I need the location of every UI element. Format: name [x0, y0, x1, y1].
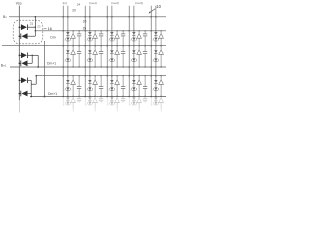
capacitor C2d: [99, 96, 103, 103]
transistor Q1b: [70, 45, 75, 68]
svg-text:24: 24: [77, 3, 81, 7]
wire column line A5: [150, 6, 152, 106]
svg-text:26: 26: [83, 20, 87, 24]
wire column line B1: [67, 6, 69, 105]
node column label (m): [63, 1, 67, 5]
transistor Q3b: [114, 45, 119, 68]
VDD supply rail wire: [18, 6, 20, 113]
wire column line A3: [106, 6, 108, 106]
capacitor C1c: [77, 75, 81, 97]
LED pair EL3c: [109, 75, 115, 97]
transistor Q1c: [70, 75, 75, 97]
transistor Q5a: [158, 30, 163, 46]
junction dots group 1: [62, 16, 68, 97]
transistor Q4b: [136, 45, 141, 68]
LED pair EL2b: [87, 45, 93, 68]
junction dots group 5: [150, 16, 156, 97]
wire column line B3: [111, 6, 113, 105]
svg-text:23: 23: [37, 25, 41, 29]
transistor Q2d: [92, 96, 97, 112]
LED pair EL2c: [87, 75, 93, 97]
transistor Q5c: [158, 75, 163, 97]
wire vertical data line Dm: [44, 41, 46, 97]
diode D2b (left): [19, 60, 33, 66]
wire node 3 vertical: [30, 80, 32, 97]
label 21: [30, 22, 34, 26]
LED pair EL3d: [109, 96, 115, 105]
capacitor C4a: [143, 30, 147, 46]
wire sub row line 2: [36, 75, 166, 77]
node label Dm+1 (bottom): [48, 92, 57, 96]
capacitor C1b: [77, 45, 81, 68]
wire node 3 branch up: [31, 75, 37, 84]
LED pair EL2d: [87, 96, 93, 105]
transistor Q3d: [114, 96, 119, 112]
capacitor C4c: [143, 75, 147, 97]
wire node 2: [32, 55, 33, 64]
LED pair EL2a: [87, 30, 93, 46]
node Bn label: [3, 15, 7, 19]
wire node 1 vertical: [35, 16, 37, 36]
capacitor C2c: [99, 75, 103, 97]
svg-text:20: 20: [72, 9, 76, 13]
wire row line Dm: [2, 45, 166, 47]
VDD label: [16, 1, 22, 5]
diode D1a (right): [19, 24, 36, 30]
label 24: [77, 3, 81, 7]
wire sub row line 1: [35, 30, 166, 32]
capacitor C3b: [121, 45, 125, 68]
LED pair EL4d: [131, 96, 137, 105]
label 23: [37, 25, 41, 29]
node column label (m+3): [135, 1, 142, 5]
transistor Q4d: [136, 96, 141, 112]
transistor Q4c: [136, 75, 141, 97]
transistor Q5b: [158, 45, 163, 68]
svg-text:(m+3): (m+3): [135, 1, 142, 5]
diode D3a (right): [19, 77, 32, 83]
svg-text:21: 21: [30, 22, 34, 26]
capacitor C2a: [99, 30, 103, 46]
capacitor C2b: [99, 45, 103, 68]
capacitor C4b: [143, 45, 147, 68]
capacitor C3d: [121, 96, 125, 103]
LED pair EL5a: [153, 30, 159, 46]
node Bn-1 label: [1, 64, 7, 68]
LED pair EL5b: [153, 45, 159, 68]
junction dots group 3: [106, 16, 112, 97]
svg-text:Dm+1: Dm+1: [47, 62, 56, 66]
label 16 leader: [44, 26, 52, 31]
transistor Q3a: [114, 30, 119, 46]
label 20: [72, 9, 76, 13]
label 10 with leader arrow: [149, 4, 162, 14]
LED pair EL5d: [153, 96, 159, 105]
LED pair EL4c: [131, 75, 137, 97]
diode D3b (left): [19, 91, 32, 97]
diode D1b (left): [19, 33, 36, 39]
LED pair EL1a: [65, 30, 71, 46]
node label Dm: [50, 36, 55, 40]
transistor Q5d: [158, 96, 163, 112]
LED pair EL4a: [131, 30, 137, 46]
svg-text:25: 25: [83, 27, 87, 31]
wire column line B2: [89, 6, 91, 105]
LED pair EL3b: [109, 45, 115, 68]
transistor Q1a: [70, 30, 75, 46]
capacitor C1a: [77, 30, 81, 46]
wire node 2 branch: [32, 55, 39, 67]
transistor Q4a: [136, 30, 141, 46]
wire row line Bn: [9, 16, 166, 18]
LED pair EL5c: [153, 75, 159, 97]
LED pair EL4b: [131, 45, 137, 68]
svg-text:(m+1): (m+1): [89, 1, 96, 5]
node column label (m+1): [89, 1, 96, 5]
capacitor C3a: [121, 30, 125, 46]
LED pair EL3a: [109, 30, 115, 46]
svg-text:16: 16: [48, 26, 52, 31]
node column label (m+2): [111, 1, 118, 5]
label 26: [83, 20, 87, 24]
wire column line B4: [133, 6, 135, 105]
transistor Q3c: [114, 75, 119, 97]
svg-text:(m+2): (m+2): [111, 1, 118, 5]
svg-text:Dm: Dm: [50, 36, 55, 40]
wire row line Dm+1: [30, 96, 166, 98]
svg-text:10: 10: [156, 4, 161, 9]
wire row line Bn-1: [10, 66, 166, 68]
capacitor C1d: [77, 96, 81, 103]
transistor Q2c: [92, 75, 97, 97]
transistor Q1d: [70, 96, 75, 112]
wire column line A1: [62, 6, 64, 106]
transistor Q2a: [92, 30, 97, 46]
wire column line A2: [84, 6, 86, 106]
svg-text:Bn-1: Bn-1: [1, 64, 7, 68]
diode D2a (right): [19, 52, 33, 58]
LED pair EL1d: [65, 96, 71, 105]
label 25: [83, 27, 87, 31]
driver cell dashed outline 16: [13, 20, 43, 44]
LED pair EL1b: [65, 45, 71, 68]
svg-text:(m): (m): [63, 1, 67, 5]
svg-text:VDD: VDD: [16, 1, 22, 5]
transistor Q2b: [92, 45, 97, 68]
capacitor C3c: [121, 75, 125, 97]
node label Dm+1 (mid): [47, 62, 56, 66]
junction dots group 4: [128, 16, 134, 97]
wire column line B5: [155, 6, 157, 105]
wire column line A4: [128, 6, 130, 106]
LED pair EL1c: [65, 75, 71, 97]
capacitor C4d: [143, 96, 147, 103]
svg-text:Dm+1: Dm+1: [48, 92, 57, 96]
junction dots group 2: [84, 16, 90, 97]
